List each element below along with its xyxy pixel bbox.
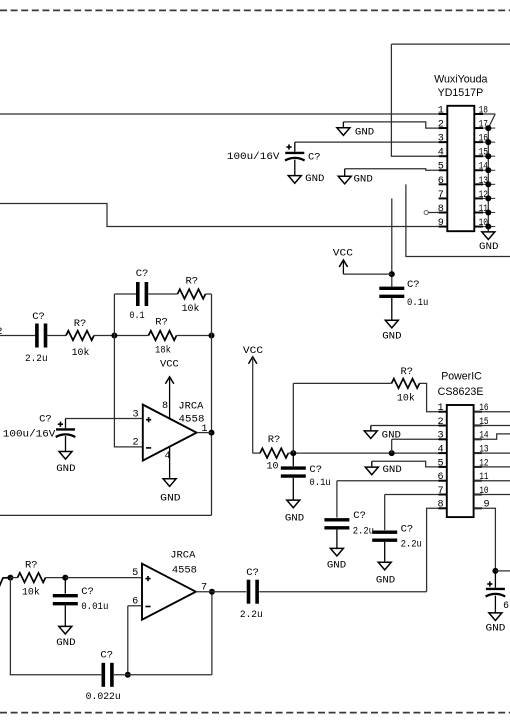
- wire coupling cap up to PowerIC pin 8: [427, 508, 439, 591]
- wire cap top lead: [292, 453, 294, 466]
- junction: [389, 450, 395, 456]
- wire cap top lead: [64, 578, 66, 594]
- wire VCC stem: [342, 260, 344, 274]
- svg-text:GND: GND: [486, 623, 506, 635]
- sheet border (top, dashed): [0, 9, 510, 11]
- wire to feedback cap: [114, 293, 136, 295]
- svg-text:C?: C?: [32, 311, 45, 323]
- svg-text:R?: R?: [185, 276, 198, 288]
- resistor R? 10k (op-amp 2 input): [18, 573, 46, 583]
- svg-text:100u/16V: 100u/16V: [3, 429, 56, 441]
- wire PowerIC pin 10 to right edge: [474, 494, 510, 496]
- wire down to cap: [336, 481, 338, 518]
- svg-text:R?: R?: [74, 318, 87, 330]
- wire node up: [292, 383, 294, 453]
- wire PowerIC pin 14 to right edge: [474, 434, 510, 439]
- svg-text:10: 10: [267, 461, 279, 473]
- capacitor C? 2.2u (pin7): [372, 532, 397, 540]
- ground (PowerIC pin 5): [365, 467, 378, 475]
- svg-text:GND: GND: [285, 513, 304, 525]
- svg-text:3: 3: [437, 431, 443, 442]
- junction feedback/output column: [209, 333, 215, 339]
- capacitor C? 0.1u (YD pin7): [379, 288, 404, 296]
- YD right-side pin wires 17-10: [483, 128, 495, 226]
- junction: [7, 575, 13, 581]
- svg-text:R?: R?: [268, 434, 281, 446]
- wire cap top lead: [294, 142, 296, 152]
- svg-text:C?: C?: [407, 279, 420, 291]
- CS8623E left pin stubs 1-8: [439, 412, 447, 509]
- wire GND to YD pin 5: [345, 169, 439, 170]
- svg-text:C?: C?: [136, 268, 149, 280]
- svg-text:5: 5: [438, 162, 444, 173]
- capacitor C? 2.2u (coupling): [249, 580, 258, 604]
- wire cap bottom lead: [65, 436, 67, 451]
- ground (2.2u cap): [330, 548, 343, 556]
- svg-text:6: 6: [438, 176, 444, 187]
- power VCC (op-amp pin 8): [165, 377, 173, 384]
- wire node up to pin 3: [391, 439, 393, 453]
- resistor fragment at left edge: [0, 578, 10, 590]
- svg-text:JRCA: JRCA: [178, 401, 204, 413]
- wire to op-amp pin 3: [66, 418, 143, 420]
- junction node A: [111, 333, 117, 339]
- YD1517P left pin stubs 1-9: [439, 114, 448, 227]
- svg-text:4558: 4558: [172, 564, 197, 576]
- capacitor C? 0.1 (feedback): [138, 282, 147, 306]
- wire left edge to YD pin 9: [0, 204, 439, 227]
- wire 18k to output node: [177, 335, 212, 337]
- svg-text:11: 11: [479, 472, 488, 483]
- svg-text:C?: C?: [353, 510, 366, 522]
- wire cap to resistor: [148, 293, 177, 295]
- svg-text:1: 1: [438, 105, 444, 116]
- svg-text:0.1u: 0.1u: [407, 297, 428, 309]
- junction: [125, 672, 131, 678]
- svg-text:100u/16V: 100u/16V: [227, 151, 280, 163]
- wire to right edge: [495, 570, 510, 572]
- CS8623E right pin numbers 16-9: [479, 403, 489, 511]
- wire op-amp output: [197, 432, 212, 434]
- svg-text:3: 3: [438, 134, 444, 145]
- svg-text:CS8623E: CS8623E: [438, 386, 484, 398]
- wire PowerIC pin 12 to right edge: [474, 466, 510, 468]
- svg-text:GND: GND: [305, 173, 324, 185]
- svg-text:R?: R?: [25, 560, 38, 572]
- plus mark: [487, 581, 492, 586]
- svg-text:16: 16: [479, 403, 488, 414]
- svg-text:2.2u: 2.2u: [25, 353, 48, 365]
- svg-text:C?: C?: [308, 151, 321, 163]
- svg-text:2: 2: [437, 417, 443, 428]
- svg-text:GND: GND: [382, 331, 401, 343]
- wire resistor to PowerIC pin 1: [420, 383, 439, 411]
- wire bottom feedback loop: [10, 578, 101, 675]
- svg-text:2.2u: 2.2u: [240, 609, 263, 621]
- wire cap bottom lead: [494, 596, 496, 613]
- junction op-amp 1 output: [209, 430, 215, 436]
- wire cap to ground: [292, 478, 294, 500]
- ground (op-amp pin 4): [163, 479, 176, 487]
- plus input mark: [146, 417, 151, 422]
- wire diagonal pin18 to bus: [488, 114, 495, 128]
- svg-text:4558: 4558: [179, 414, 205, 426]
- svg-text:0.022u: 0.022u: [86, 691, 121, 703]
- plus input mark: [145, 576, 150, 581]
- wire GND to YD pin 2: [343, 122, 438, 128]
- ground (PowerIC pin 2): [364, 431, 377, 439]
- svg-text:GND: GND: [327, 559, 346, 571]
- wire GND stem: [344, 169, 346, 177]
- resistor R? 10k (input): [66, 331, 94, 341]
- resistor R? 10k (PowerIC pin1): [392, 379, 420, 389]
- wire output to left edge: [0, 514, 212, 516]
- svg-text:7: 7: [437, 486, 443, 497]
- wire ground bus: [487, 128, 489, 232]
- wire cap top lead: [494, 571, 496, 588]
- wire to node A: [94, 335, 149, 337]
- svg-text:10k: 10k: [22, 587, 40, 599]
- ground (0.01u cap): [59, 626, 72, 634]
- capacitor C? 0.01u: [53, 596, 78, 604]
- svg-text:13: 13: [479, 445, 488, 456]
- svg-text:12: 12: [479, 458, 488, 469]
- wire from left edge: [0, 335, 36, 337]
- svg-text:GND: GND: [479, 241, 499, 253]
- svg-text:C?: C?: [401, 524, 414, 536]
- wire GND stem: [371, 461, 373, 467]
- YD1517P right pin numbers 18-10: [479, 105, 488, 229]
- CS8623E right pin stubs 16-9: [474, 412, 482, 509]
- wire to YD pin 8: [428, 212, 438, 214]
- capacitor C? 0.022u: [103, 663, 112, 687]
- wire VCC to node: [343, 273, 391, 275]
- wire cap to ground: [64, 606, 66, 627]
- wire PowerIC pin 11 to right edge: [474, 480, 510, 482]
- svg-text:R?: R?: [155, 316, 168, 328]
- svg-text:15: 15: [479, 417, 488, 428]
- junction: [290, 450, 296, 456]
- wire to PowerIC pin 3: [392, 438, 439, 440]
- ground (YD bus): [482, 232, 495, 240]
- YD1517P left pin numbers 1-9: [438, 105, 444, 229]
- wire cap to ground: [391, 298, 393, 320]
- wire to PowerIC pin 7: [385, 494, 439, 496]
- ground (output cap): [489, 613, 502, 621]
- wire YD pin 18: [483, 113, 495, 115]
- svg-text:VCC: VCC: [160, 358, 179, 370]
- ground (2.2u cap): [378, 562, 391, 570]
- wire node A to op-amp pin 2: [114, 336, 142, 447]
- op-amp U? JRCA 4558 (B): [142, 564, 196, 620]
- svg-text:14: 14: [479, 431, 488, 442]
- svg-text:YD1517P: YD1517P: [438, 87, 484, 99]
- capacitor C? 680u (output): [486, 589, 506, 597]
- svg-text:C?: C?: [309, 464, 322, 476]
- svg-text:R?: R?: [400, 366, 413, 378]
- wire cap to ground: [336, 530, 338, 549]
- svg-text:10k: 10k: [72, 347, 90, 359]
- svg-text:C?: C?: [246, 567, 259, 579]
- wire GND stem: [342, 122, 344, 128]
- sheet border (bottom, dashed): [0, 712, 510, 714]
- wire YD pin 7 down to VCC node: [391, 198, 393, 287]
- svg-text:GND: GND: [383, 464, 402, 476]
- svg-text:GND: GND: [355, 127, 374, 139]
- svg-text:3: 3: [132, 409, 138, 420]
- junction: [492, 568, 498, 574]
- wire op-amp pin 4 to ground: [169, 447, 171, 479]
- wire cap to YD pin 3: [295, 141, 439, 143]
- junction: [62, 575, 68, 581]
- ground (bias cap): [59, 452, 72, 460]
- svg-text:2: 2: [438, 120, 444, 131]
- svg-text:C?: C?: [39, 414, 52, 426]
- minus input mark: [145, 606, 150, 608]
- wire GND to PowerIC pin 5: [372, 461, 439, 467]
- capacitor C? 2.2u (input): [37, 324, 46, 348]
- ground (cap): [288, 176, 301, 184]
- wire to op-amp pin 5: [65, 577, 142, 579]
- wire to 10k resistor: [293, 382, 391, 384]
- ground (YD pin 5): [338, 176, 351, 184]
- svg-text:2.2u: 2.2u: [353, 526, 374, 538]
- wire cap to resistor: [47, 335, 66, 337]
- svg-text:VCC: VCC: [243, 345, 263, 357]
- svg-text:C?: C?: [100, 650, 113, 662]
- IC U? WuxiYouda YD1517P body: [447, 106, 474, 231]
- svg-text:0.1: 0.1: [129, 310, 144, 322]
- svg-text:1: 1: [437, 403, 443, 414]
- svg-text:GND: GND: [354, 173, 373, 185]
- svg-text:10: 10: [479, 486, 488, 497]
- ground (YD pin 2): [337, 128, 350, 136]
- wire op-amp pin 8 to VCC: [169, 377, 171, 419]
- svg-text:GND: GND: [160, 493, 181, 505]
- wire resistor to column: [206, 293, 212, 295]
- wire YD pin 6 to right edge: [406, 184, 510, 256]
- svg-text:JRCA: JRCA: [170, 550, 196, 562]
- svg-text:4: 4: [437, 445, 443, 456]
- wire VCC stem down: [252, 357, 254, 453]
- svg-text:5: 5: [132, 568, 138, 579]
- svg-text:2.2u: 2.2u: [401, 539, 422, 551]
- wire cap bottom lead: [294, 160, 296, 176]
- wire node A up to feedback: [113, 294, 115, 336]
- capacitor C? 0.1u (PowerIC): [281, 468, 306, 476]
- capacitor C? 100u/16V (op-amp bias): [56, 429, 76, 437]
- minus input mark: [146, 447, 151, 449]
- wire down to cap: [384, 495, 386, 531]
- svg-text:18: 18: [479, 105, 488, 116]
- CS8623E left pin numbers 1-8: [437, 403, 443, 511]
- wire cap to ground: [384, 542, 386, 562]
- wire GND stem: [370, 426, 372, 431]
- svg-text:GND: GND: [56, 463, 75, 475]
- svg-text:6: 6: [437, 472, 443, 483]
- svg-text:0.1u: 0.1u: [309, 477, 330, 489]
- resistor R? 10: [260, 448, 288, 458]
- wire node to PowerIC pin 4: [288, 452, 438, 454]
- wire to resistor: [253, 452, 260, 454]
- no-connect circle (YD pin 8): [424, 210, 428, 214]
- wire cap to output column: [114, 674, 212, 676]
- junction dots on ground bus: [485, 125, 491, 229]
- svg-text:5: 5: [437, 458, 443, 469]
- wire resistor to node: [46, 577, 66, 579]
- svg-text:9: 9: [438, 218, 444, 229]
- svg-text:9: 9: [484, 500, 490, 511]
- svg-text:VCC: VCC: [333, 247, 353, 259]
- wire coupling cap to PowerIC pin 8: [259, 591, 426, 593]
- power VCC (YD pin7): [339, 260, 347, 267]
- wire op-amp output: [196, 591, 212, 593]
- wire down to YD pin 4: [391, 44, 438, 156]
- svg-text:7: 7: [438, 190, 444, 201]
- wire pin6 column down: [127, 606, 129, 675]
- resistor R? 10k (feedback): [178, 289, 206, 299]
- svg-text:GND: GND: [376, 574, 395, 586]
- svg-text:8: 8: [438, 204, 444, 215]
- wire: [10, 577, 17, 579]
- wire cap top lead: [65, 419, 67, 429]
- ground (0.1u cap): [385, 320, 398, 328]
- wire left edge to YD pin 1: [0, 113, 439, 115]
- plus mark: [58, 422, 63, 427]
- wire top to right edge: [391, 43, 510, 45]
- wire PowerIC pin 9 down: [474, 508, 496, 571]
- resistor R? 18k (feedback): [149, 331, 177, 341]
- IC U? PowerIC CS8623E body: [447, 405, 474, 517]
- junction (VCC node): [389, 271, 395, 277]
- ground (0.1u cap): [287, 500, 300, 508]
- svg-text:4: 4: [438, 148, 444, 159]
- svg-text:GND: GND: [56, 637, 75, 649]
- wire GND to PowerIC pin 2: [371, 425, 439, 427]
- junction op-amp 2 output: [209, 589, 215, 595]
- svg-text:18k: 18k: [155, 345, 171, 357]
- plus mark: [286, 144, 291, 149]
- svg-text:8: 8: [162, 401, 168, 412]
- wire PowerIC pin 15 to right edge: [474, 425, 510, 427]
- YD1517P right pin stubs 18-10: [474, 114, 483, 227]
- capacitor C? 100u/16V (YD pin3): [285, 153, 305, 161]
- svg-text:10k: 10k: [397, 393, 415, 405]
- svg-text:0.01u: 0.01u: [81, 601, 108, 613]
- svg-text:C?: C?: [81, 586, 94, 598]
- svg-text:PowerIC: PowerIC: [441, 370, 482, 382]
- wire output column: [211, 592, 213, 675]
- svg-text:2: 2: [132, 438, 138, 449]
- svg-text:6: 6: [503, 600, 509, 611]
- wire to PowerIC pin 6: [337, 480, 439, 482]
- capacitor C? 2.2u (pin6): [324, 520, 349, 528]
- wire feedback column down: [211, 294, 213, 515]
- power VCC (PowerIC): [249, 357, 257, 364]
- wire PowerIC pin 16 to right edge: [474, 411, 510, 413]
- svg-text:WuxiYouda: WuxiYouda: [434, 74, 488, 86]
- wire to op-amp pin 6: [128, 605, 142, 607]
- svg-text:8: 8: [437, 500, 443, 511]
- wire output to coupling cap: [212, 591, 246, 593]
- svg-text:10k: 10k: [182, 303, 200, 315]
- wire PowerIC pin 13 to right edge: [474, 452, 510, 454]
- op-amp U? JRCA 4558 (A): [143, 405, 197, 461]
